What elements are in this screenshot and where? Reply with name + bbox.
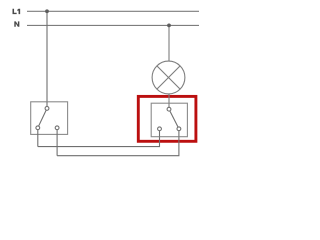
junction on N bbox=[167, 24, 171, 28]
net label N bbox=[14, 21, 19, 26]
wire: re-draw lamp drop inside S2 to top pin bbox=[168, 103, 170, 109]
switch S1 body bbox=[31, 102, 68, 135]
wire: re-draw L1 drop inside S1 to top pin bbox=[46, 102, 48, 109]
wire: N supply line bbox=[27, 24, 199, 26]
wire: L1 tap down to switch S1 bbox=[46, 11, 48, 108]
wire: lamp to switch S2 bbox=[168, 94, 170, 109]
wire: S1 right traveler drop bbox=[56, 128, 58, 156]
wire: N tap down to lamp bbox=[168, 25, 170, 62]
wire: lower traveler bbox=[57, 129, 179, 156]
junction on L1 bbox=[45, 9, 49, 13]
switch S2 common pin bbox=[167, 107, 171, 111]
switch S1 pin 2 bbox=[55, 126, 59, 130]
switch S2 pin 1 bbox=[158, 127, 162, 131]
wire: lower traveler riser inside S2 bbox=[178, 129, 180, 137]
highlight box (red) around switch S2 bbox=[138, 96, 196, 141]
switch S2 body bbox=[151, 103, 187, 137]
lamp bbox=[152, 61, 185, 94]
wire: upper traveler riser inside S2 bbox=[159, 129, 161, 137]
net label L1 bbox=[13, 9, 21, 14]
switch S2 lever bbox=[169, 109, 179, 129]
wire: S1 left traveler drop bbox=[37, 128, 39, 147]
switch S1 common pin bbox=[45, 107, 49, 111]
wire: upper traveler bbox=[38, 129, 160, 147]
wire: L1 supply line bbox=[27, 10, 199, 12]
switch S2 pin 2 bbox=[177, 127, 181, 131]
switch S1 lever bbox=[38, 108, 47, 127]
switch S1 pin 1 bbox=[36, 126, 40, 130]
